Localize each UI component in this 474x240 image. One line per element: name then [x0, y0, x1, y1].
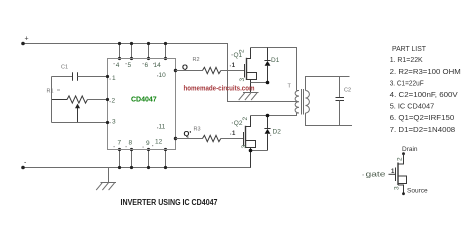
wire R3 to Q2 gate [221, 138, 244, 140]
svg-text:2: 2 [112, 98, 116, 105]
svg-text:8: 8 [129, 140, 133, 147]
wiper arrow of R1 [77, 107, 79, 123]
node D1 anode [266, 81, 270, 85]
svg-text:R3: R3 [194, 127, 201, 133]
svg-text:9: 9 [146, 140, 150, 147]
svg-text:2: 2 [397, 157, 404, 161]
wire Q2 source to D2 anode [251, 150, 268, 152]
node Q' output pin11 [174, 137, 177, 140]
svg-text:3: 3 [239, 78, 246, 82]
svg-text:CD4047: CD4047 [131, 97, 157, 104]
wire R2 to Q1 gate [221, 70, 245, 72]
svg-text:5: 5 [128, 62, 132, 69]
wire Q' to R3 [176, 138, 203, 140]
ground at Q1 source [239, 93, 259, 101]
svg-text:D2: D2 [273, 129, 282, 136]
wire Q1 source to D1 anode [251, 82, 268, 84]
node D2 cathode tap [266, 114, 270, 118]
svg-text:4. C2=100nF, 600V: 4. C2=100nF, 600V [390, 90, 458, 99]
svg-text:R1: R1 [47, 89, 54, 95]
part list [390, 44, 461, 134]
wire Q2 drain line to transformer bottom [251, 113, 297, 116]
svg-text:7: 7 [118, 140, 122, 147]
core [301, 89, 303, 115]
node pin3 [106, 121, 109, 124]
wire pin8 ground stub [131, 150, 133, 168]
wire RC left rail [51, 77, 53, 123]
svg-text:2: 2 [239, 49, 246, 53]
wire pin3 [52, 122, 108, 124]
wire pin14 supply stub [165, 44, 167, 59]
wire Q1 drain line to transformer top [251, 48, 297, 91]
svg-text:2. R2=R3=100 OHM: 2. R2=R3=100 OHM [390, 67, 461, 76]
svg-text:5. IC CD4047: 5. IC CD4047 [390, 102, 435, 111]
svg-text:3: 3 [241, 145, 248, 149]
secondary leads [306, 77, 350, 91]
wire pin9 ground stub [148, 150, 150, 168]
ground [96, 168, 116, 191]
node - terminal [21, 166, 25, 170]
svg-text:Source: Source [407, 188, 428, 195]
svg-text:C2: C2 [344, 88, 351, 94]
svg-text:4: 4 [116, 62, 120, 69]
svg-text:R2: R2 [193, 57, 200, 63]
svg-text:+: + [25, 36, 29, 43]
svg-text:D1: D1 [271, 57, 280, 64]
svg-text:11: 11 [159, 124, 166, 131]
wire Q to R2 [176, 70, 203, 72]
primary winding [295, 91, 299, 114]
wire pin7 ground stub [119, 150, 121, 168]
svg-text:3. C1=22uF: 3. C1=22uF [390, 78, 424, 87]
wire V+ top rail and center-tap drop [23, 44, 298, 102]
wire pin5 supply stub [131, 44, 133, 59]
secondary winding [306, 91, 310, 114]
svg-text:Drain: Drain [402, 146, 418, 153]
svg-text:gate: gate [366, 171, 386, 178]
svg-text:Q': Q' [184, 129, 192, 138]
node pin1 [106, 75, 109, 78]
svg-text:homemade-circuits.com: homemade-circuits.com [184, 83, 255, 92]
wire pin4 supply stub [119, 44, 121, 59]
svg-text:10: 10 [159, 72, 167, 79]
svg-text:3: 3 [112, 119, 116, 126]
wire pin6 supply stub [148, 44, 150, 59]
svg-text:2: 2 [242, 117, 249, 121]
node pin2 [106, 98, 109, 101]
IC U1 CD4047 [108, 59, 176, 150]
svg-text:1: 1 [112, 75, 116, 82]
wire 0V bottom rail [23, 151, 251, 168]
svg-text:6: 6 [145, 62, 149, 69]
svg-text:PART LIST: PART LIST [392, 44, 426, 53]
node + terminal [21, 42, 25, 46]
svg-text:14: 14 [154, 62, 162, 69]
svg-text:3: 3 [394, 186, 401, 190]
svg-text:1. R1=22K: 1. R1=22K [390, 55, 423, 64]
node Q2 source [249, 149, 253, 153]
wire pin12 ground stub [165, 150, 167, 168]
svg-text:C1: C1 [61, 65, 68, 71]
svg-text:12: 12 [155, 139, 163, 146]
svg-text:INVERTER USING IC CD4047: INVERTER USING IC CD4047 [121, 197, 218, 207]
node Q output pin10 [174, 69, 177, 72]
svg-text:7. D1=D2=1N4008: 7. D1=D2=1N4008 [390, 125, 456, 134]
svg-text:6. Q1=Q2=IRF150: 6. Q1=Q2=IRF150 [390, 113, 455, 122]
